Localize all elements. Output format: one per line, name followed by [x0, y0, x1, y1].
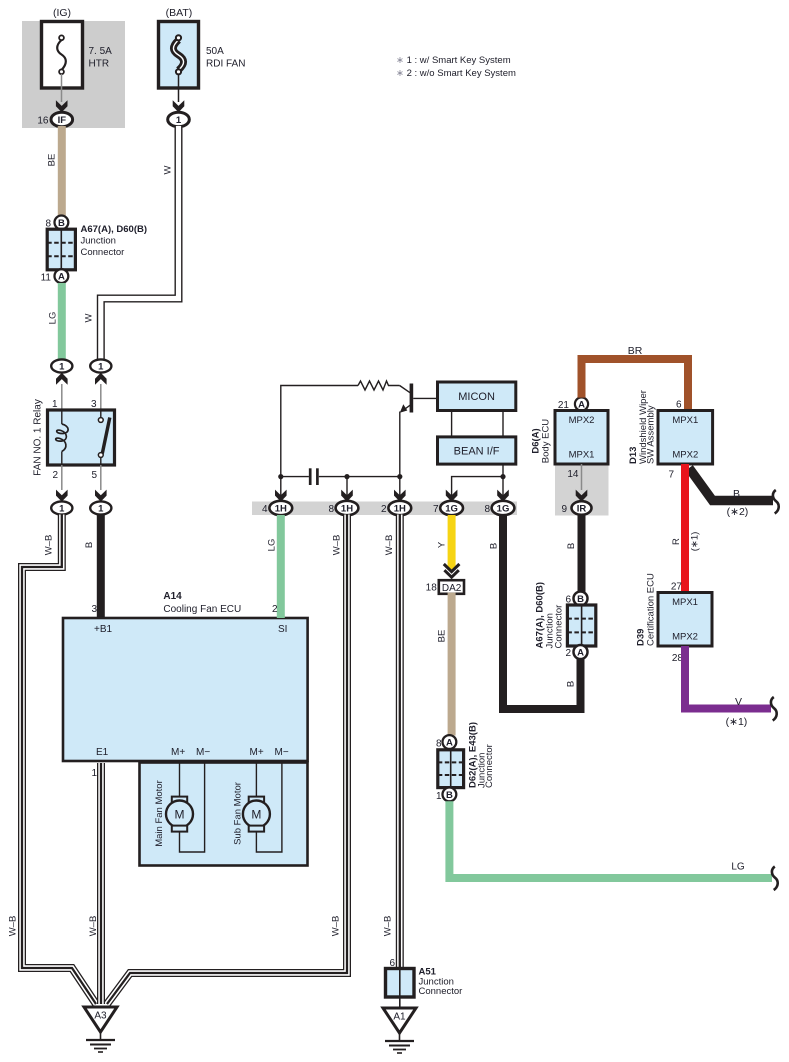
- svg-text:BR: BR: [628, 345, 643, 357]
- svg-text:B: B: [577, 594, 584, 605]
- IC BEAN I/F: [438, 437, 516, 464]
- svg-text:BEAN I/F: BEAN I/F: [454, 446, 500, 458]
- svg-text:+B1: +B1: [94, 624, 113, 635]
- wire LG (D62 to right continuation): [449, 801, 772, 878]
- svg-text:LG: LG: [731, 862, 745, 873]
- svg-text:B: B: [733, 488, 740, 500]
- svg-text:MPX1: MPX1: [569, 450, 595, 461]
- wire R (*1) (wiper switch pin 7 to certification ECU): [681, 464, 689, 592]
- svg-text:W–B: W–B: [332, 535, 343, 556]
- wire W-B (2-1H to A51 junction connector): [396, 515, 404, 969]
- svg-text:∗ 1 : w/ Smart Key System: ∗ 1 : w/ Smart Key System: [396, 55, 511, 66]
- ground A1: [383, 1008, 416, 1033]
- wire B (relay pin 5 to cooling fan ECU +B1): [97, 515, 105, 619]
- junction connector A67(A), D60(B) body: [47, 229, 75, 270]
- wire Y (7-1G to DA2): [448, 515, 456, 570]
- junction connector D62(A), E43(B) pin 8 A: [443, 735, 457, 749]
- svg-text:SI: SI: [278, 624, 287, 635]
- wire (internal circuit, 4-1H node up and over): [281, 386, 358, 502]
- svg-text:Connector: Connector: [419, 986, 463, 997]
- svg-text:HTR: HTR: [89, 59, 110, 70]
- svg-text:V: V: [735, 696, 742, 708]
- connector 7 1G: [446, 490, 458, 502]
- junction connector A67(A), D60(B) body (right): [567, 605, 595, 646]
- connector 21 A (Body ECU): [575, 397, 588, 410]
- svg-text:16: 16: [37, 116, 49, 127]
- svg-text:∗ 2 : w/o Smart Key System: ∗ 2 : w/o Smart Key System: [396, 68, 516, 79]
- wire B (*2) branch to continuation: [689, 468, 773, 501]
- svg-text:M+: M+: [250, 747, 264, 758]
- wire BE (DA2 to D62 junction connector): [448, 593, 456, 736]
- svg-text:18: 18: [426, 583, 438, 594]
- svg-text:2: 2: [272, 604, 278, 615]
- IC MICON: [438, 382, 516, 411]
- node junction dots: [278, 474, 283, 479]
- wire W-B (relay pin 2 to ground A3): [22, 515, 96, 1005]
- shield arrows into DA2: [444, 564, 460, 572]
- svg-text:7: 7: [668, 470, 674, 481]
- wire A51 to ground A1: [399, 997, 401, 1009]
- svg-text:(∗2): (∗2): [727, 506, 749, 518]
- capacitor (filter): [281, 476, 309, 478]
- wire LG (4-1H to SI): [277, 515, 285, 618]
- wire fuse HTR to connector IF: [61, 74, 63, 102]
- svg-text:Y: Y: [437, 541, 448, 548]
- svg-text:6: 6: [676, 400, 682, 411]
- wire BEAN I/F to 7-1G / 8-1G: [452, 464, 503, 501]
- svg-text:4: 4: [262, 504, 268, 515]
- svg-text:A: A: [577, 648, 584, 659]
- svg-text:M+: M+: [171, 747, 185, 758]
- svg-text:A: A: [578, 400, 585, 411]
- svg-text:8: 8: [328, 504, 334, 515]
- svg-text:MPX1: MPX1: [672, 415, 698, 426]
- svg-text:Connector: Connector: [554, 605, 565, 649]
- svg-text:Body ECU: Body ECU: [541, 419, 552, 463]
- connector 2 1H: [394, 490, 406, 502]
- svg-text:5: 5: [91, 470, 97, 481]
- svg-text:BE: BE: [437, 630, 448, 643]
- svg-text:E1: E1: [96, 747, 109, 758]
- wire LG (junction connector to fan relay): [58, 283, 66, 360]
- svg-text:M−: M−: [196, 747, 210, 758]
- svg-text:M−: M−: [275, 747, 289, 758]
- svg-text:B: B: [566, 543, 577, 549]
- svg-text:11: 11: [41, 273, 52, 284]
- relay switch: [100, 411, 102, 418]
- connector 18 DA2: [439, 580, 464, 594]
- svg-text:MPX1: MPX1: [672, 597, 698, 608]
- svg-text:(BAT): (BAT): [166, 7, 193, 19]
- connector gray band (1H/1G row): [252, 502, 517, 516]
- svg-text:1: 1: [436, 791, 442, 802]
- connector 1 (relay switch feed): [90, 359, 111, 372]
- svg-text:1: 1: [98, 504, 104, 515]
- connector 8 1H: [341, 490, 353, 502]
- svg-text:A3: A3: [94, 1011, 107, 1022]
- wire B (9-IR to A67 junction connector): [578, 515, 586, 592]
- svg-text:2: 2: [381, 504, 387, 515]
- svg-text:W–B: W–B: [331, 916, 342, 937]
- svg-text:M: M: [175, 808, 185, 822]
- connector 4 1H: [275, 490, 287, 502]
- svg-text:BE: BE: [47, 154, 58, 167]
- svg-text:W–B: W–B: [383, 916, 394, 937]
- svg-text:2: 2: [565, 648, 571, 659]
- svg-text:Certification ECU: Certification ECU: [646, 573, 657, 646]
- wire (emitter down to 2-1H): [399, 412, 401, 502]
- ECU D6(A) Body ECU: [555, 411, 608, 465]
- svg-text:1: 1: [176, 115, 182, 126]
- resistor (base drive): [358, 381, 400, 390]
- junction connector A67(A) D60(B) pin 8 B: [55, 216, 69, 230]
- connector 9 IR: [572, 501, 592, 515]
- wire fuse RDI FAN to connector 1: [178, 74, 180, 102]
- svg-text:R: R: [671, 538, 682, 545]
- fan motors box: [140, 763, 308, 866]
- wire W-B (8-1H to ground A3): [107, 515, 347, 1005]
- svg-text:1: 1: [98, 362, 104, 373]
- svg-text:FAN NO. 1 Relay: FAN NO. 1 Relay: [33, 399, 44, 476]
- wire W (fuse RDI FAN to fan relay): [101, 126, 179, 360]
- svg-text:A14: A14: [163, 591, 182, 602]
- connector 1 (relay coil feed): [51, 359, 72, 372]
- svg-text:IF: IF: [58, 115, 67, 126]
- svg-text:Cooling Fan ECU: Cooling Fan ECU: [163, 604, 241, 615]
- connector 16 IF: [51, 112, 73, 126]
- svg-text:A67(A), D60(B): A67(A), D60(B): [81, 224, 148, 235]
- svg-text:(∗1): (∗1): [726, 716, 748, 728]
- svg-text:B: B: [84, 542, 95, 548]
- svg-text:W: W: [84, 313, 95, 322]
- svg-text:(∗1): (∗1): [690, 532, 701, 552]
- transistor Q (fan control): [400, 386, 411, 393]
- svg-text:1: 1: [52, 399, 58, 410]
- svg-text:B: B: [566, 681, 577, 687]
- svg-text:1: 1: [59, 362, 65, 373]
- junction connector A67(A), D60(B) pin 6 B (right): [574, 592, 588, 606]
- svg-text:Connector: Connector: [81, 247, 125, 258]
- svg-text:Junction: Junction: [81, 236, 116, 247]
- svg-text:3: 3: [91, 604, 97, 615]
- svg-text:B: B: [58, 218, 65, 229]
- svg-text:MICON: MICON: [458, 391, 495, 403]
- svg-text:W: W: [163, 165, 174, 174]
- svg-text:MPX2: MPX2: [672, 450, 698, 461]
- svg-text:1H: 1H: [341, 504, 353, 515]
- junction connector A67 pin 2 A (right): [574, 645, 588, 659]
- junction connector D62 pin 1 B: [443, 788, 457, 802]
- svg-text:1H: 1H: [275, 504, 287, 515]
- svg-text:LG: LG: [48, 312, 59, 325]
- svg-text:1G: 1G: [445, 504, 458, 515]
- IG power source gray box: [22, 21, 125, 128]
- svg-text:(IG): (IG): [53, 7, 71, 19]
- wire (8-1H stub): [346, 477, 348, 501]
- svg-text:W–B: W–B: [44, 535, 55, 556]
- svg-text:LG: LG: [267, 539, 278, 552]
- svg-text:RDI FAN: RDI FAN: [206, 59, 245, 70]
- wire B (8-1G loop to A67 junction connector): [503, 515, 581, 709]
- Body ECU gray box: [555, 465, 609, 516]
- svg-text:W–B: W–B: [384, 535, 395, 556]
- svg-text:1H: 1H: [394, 504, 406, 515]
- svg-text:14: 14: [567, 469, 579, 480]
- svg-text:3: 3: [91, 399, 97, 410]
- svg-text:7. 5A: 7. 5A: [89, 46, 113, 57]
- ground A3: [84, 1007, 117, 1032]
- svg-text:W–B: W–B: [8, 916, 19, 937]
- svg-text:1: 1: [91, 768, 97, 779]
- svg-text:DA2: DA2: [442, 583, 462, 594]
- connector 8 1G: [497, 490, 509, 502]
- svg-text:MPX2: MPX2: [569, 415, 595, 426]
- svg-text:IR: IR: [577, 504, 587, 515]
- wires MICON to BEAN I/F: [451, 411, 453, 437]
- svg-text:1G: 1G: [497, 504, 510, 515]
- svg-text:A: A: [446, 738, 453, 749]
- connector 1 (BAT feed): [168, 112, 190, 126]
- svg-text:2: 2: [52, 470, 58, 481]
- svg-text:MPX2: MPX2: [672, 632, 698, 643]
- relay FAN NO. 1 Relay: [48, 410, 115, 465]
- junction connector D62(A), E43(B) body: [438, 750, 464, 788]
- svg-text:7: 7: [433, 504, 439, 515]
- svg-text:50A: 50A: [206, 46, 224, 57]
- svg-text:27: 27: [671, 582, 683, 593]
- svg-text:W–B: W–B: [88, 916, 99, 937]
- wire BE (fuse HTR to junction connector): [58, 126, 66, 216]
- svg-text:B: B: [446, 790, 453, 801]
- junction connector pin 11 A: [55, 269, 69, 283]
- svg-text:A: A: [58, 272, 65, 283]
- svg-text:Connector: Connector: [484, 744, 495, 788]
- wire BR (Body ECU 21-A to wiper switch pin 6): [582, 359, 689, 410]
- svg-text:1: 1: [59, 504, 65, 515]
- svg-text:M: M: [251, 808, 261, 822]
- svg-text:SW Assembly: SW Assembly: [646, 405, 657, 464]
- wire V (*1) (certification ECU to continuation): [685, 646, 771, 709]
- relay coil: [61, 411, 63, 424]
- svg-text:B: B: [489, 543, 500, 549]
- svg-text:9: 9: [561, 504, 567, 515]
- svg-text:A1: A1: [393, 1012, 406, 1023]
- svg-text:Main Fan Motor: Main Fan Motor: [154, 780, 165, 847]
- svg-text:8: 8: [484, 504, 490, 515]
- svg-text:8: 8: [436, 739, 442, 750]
